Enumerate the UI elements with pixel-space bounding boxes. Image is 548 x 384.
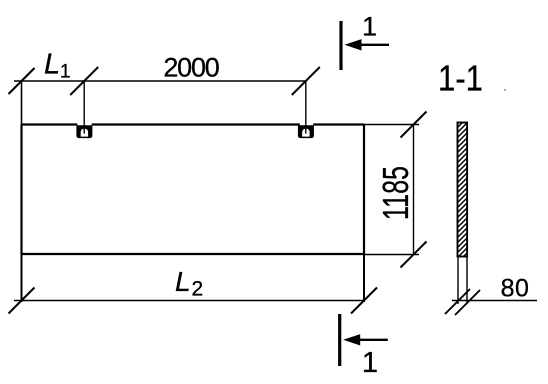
tick at anchor2 on top dim bbox=[292, 67, 320, 95]
svg-text:1-1: 1-1 bbox=[438, 58, 483, 99]
svg-text:2000: 2000 bbox=[163, 53, 218, 83]
tick at left extension of 80 dim bbox=[445, 289, 470, 314]
section mark bottom: cut line bbox=[338, 314, 341, 366]
svg-text:1185: 1185 bbox=[375, 166, 416, 220]
extension line from strip right edge down bbox=[466, 257, 468, 305]
extension line anchor 1 bbox=[83, 81, 85, 134]
extension line from strip left edge down bbox=[457, 257, 459, 305]
section mark top: arrow bbox=[345, 39, 390, 50]
svg-text:1: 1 bbox=[60, 62, 71, 83]
right dimension line 1185 bbox=[413, 125, 415, 255]
extension line anchor 2 bbox=[305, 81, 307, 134]
label L2 bbox=[175, 266, 203, 301]
bottom dimension line L2 bbox=[14, 300, 364, 302]
section strip hatching bbox=[452, 108, 472, 278]
tick at right extension of 80 dim bbox=[455, 290, 480, 315]
lifting anchor 2 bbox=[298, 125, 314, 138]
section mark top: cut line bbox=[339, 21, 342, 70]
svg-text:1: 1 bbox=[362, 347, 378, 379]
tick at bottom of 1185 dim bbox=[401, 242, 427, 268]
section strip outline bbox=[458, 123, 468, 257]
svg-text:1: 1 bbox=[362, 12, 377, 42]
dimension line 80 bbox=[452, 300, 537, 302]
label L1 bbox=[44, 49, 71, 83]
svg-text:L: L bbox=[44, 49, 60, 81]
tick at anchor1 on top dim bbox=[70, 67, 98, 95]
svg-text:L: L bbox=[175, 266, 191, 297]
lifting anchor 1 bbox=[76, 125, 92, 138]
extension of left edge down to L2 dimension bbox=[21, 254, 23, 302]
extension line at left edge up to top dim bbox=[21, 81, 23, 125]
tick at right end of L2 dim bbox=[351, 288, 377, 314]
tick at top of 1185 dim bbox=[401, 112, 427, 138]
top dimension line bbox=[14, 80, 306, 82]
svg-text:80: 80 bbox=[501, 275, 530, 303]
svg-text:2: 2 bbox=[192, 278, 204, 301]
scan speckle bbox=[504, 89, 506, 91]
panel outline (front view) bbox=[22, 125, 365, 255]
section mark bottom: arrow bbox=[343, 334, 388, 345]
tick at left end of L2 dim bbox=[9, 288, 35, 314]
tick at left end of top dim bbox=[9, 68, 35, 94]
right dimension extension bottom bbox=[364, 254, 419, 256]
right dimension extension top bbox=[364, 124, 419, 126]
extension of right edge down to L2 dimension bbox=[363, 254, 365, 302]
